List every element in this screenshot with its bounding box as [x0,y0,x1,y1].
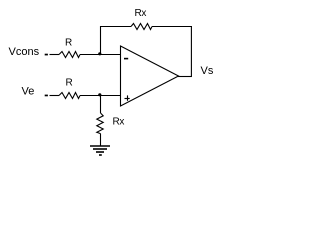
op-amp U1 triangle [121,46,179,106]
resistor R2 (label R) zigzag [59,93,80,99]
wire feedback left vertical [100,26,102,55]
wire from + node down to Rx ground resistor [100,96,102,114]
junction node at non-inverting input [98,93,101,96]
ground symbol [90,146,110,155]
wire R2 to non-inverting input [80,95,121,97]
svg-text:Rx: Rx [113,117,125,128]
svg-text:Rx: Rx [135,8,147,19]
wire Ve input left segment [50,95,60,97]
svg-text:Vcons: Vcons [9,46,40,58]
svg-text:R: R [66,77,73,88]
node Ve terminal dash [45,95,48,97]
resistor Rx to ground, vertical zigzag [97,113,103,134]
wire op-amp output [178,76,192,78]
op-amp non-inverting input plus sign [125,95,130,100]
wire feedback right vertical to output [190,26,192,77]
wire Vcons input left segment [50,54,60,56]
resistor R1 (label R) zigzag [59,52,80,58]
svg-text:R: R [65,38,72,49]
svg-text:Vs: Vs [201,65,214,77]
wire feedback top left segment [100,26,131,28]
resistor Rx feedback zigzag [131,24,152,30]
junction node at inverting input [98,52,101,55]
wire Rx to ground [100,134,102,146]
wire R1 to inverting input [80,54,121,56]
node Vcons terminal dash [45,54,48,56]
op-amp inverting input minus sign [124,58,128,60]
wire feedback top right segment [152,26,192,28]
svg-text:Ve: Ve [22,86,35,98]
